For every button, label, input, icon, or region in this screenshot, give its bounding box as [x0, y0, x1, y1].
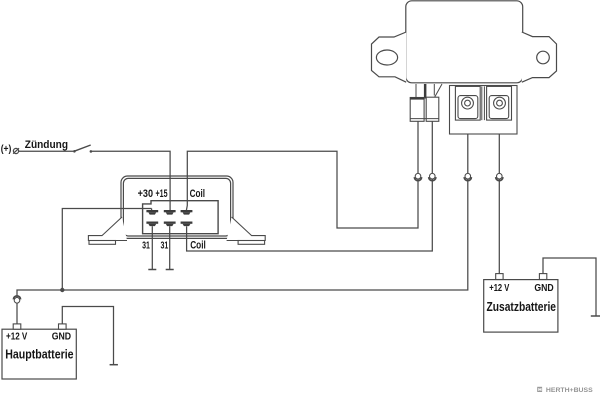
- wire coil-top pin to relay pin A: [186, 121, 418, 228]
- ground symbol 31 right: [166, 269, 174, 271]
- svg-text:+15: +15: [156, 188, 168, 200]
- junction node dot: [60, 288, 64, 292]
- switch fixed contact dot: [90, 150, 93, 153]
- svg-text:+12 V: +12 V: [489, 283, 509, 294]
- wire socket pin 31 (left) to ground: [151, 226, 153, 269]
- svg-text:Coil: Coil: [190, 240, 206, 252]
- svg-text:Coil: Coil: [190, 188, 205, 200]
- wire socket pin 31 (right) to ground: [169, 226, 171, 269]
- socket pin coil-bottom: [181, 222, 193, 227]
- relay terminal D: [487, 86, 512, 120]
- logo HERTH+BUSS icon: [537, 387, 542, 392]
- svg-text:31: 31: [161, 241, 169, 252]
- relay left mounting tab: [372, 32, 407, 82]
- wire relay pin D to auxiliary battery +12V: [498, 109, 500, 274]
- relay coil pin thick blade: [424, 84, 427, 99]
- socket pin 31 left: [146, 222, 158, 227]
- bullet connector pin A: [414, 173, 421, 180]
- relay body: [406, 1, 523, 83]
- svg-text:GND: GND: [52, 331, 72, 343]
- relay sleeves inner line: [410, 118, 439, 120]
- wire coil-bottom pin to relay pin B: [187, 121, 433, 251]
- svg-text:Hauptbatterie: Hauptbatterie: [5, 348, 73, 362]
- svg-text:GND: GND: [534, 283, 553, 294]
- main battery GND terminal: [59, 324, 67, 329]
- socket right mounting bracket: [227, 217, 266, 244]
- battery Hauptbatterie box: [2, 329, 76, 379]
- relay pin sleeve A top bar: [410, 97, 424, 99]
- relay pin sleeve A: [410, 98, 424, 122]
- ground symbol main battery: [110, 364, 118, 366]
- bullet connector pin C: [464, 173, 471, 180]
- relay coil pins above sleeves: [416, 84, 442, 97]
- svg-text:(+): (+): [1, 144, 12, 155]
- relay terminal C: [455, 86, 480, 120]
- svg-text:31: 31: [142, 241, 150, 252]
- ground symbol 31 left: [148, 269, 156, 271]
- aux battery +12V terminal: [496, 274, 503, 280]
- svg-text:+12 V: +12 V: [6, 331, 27, 343]
- socket pin coil-top: [181, 210, 193, 215]
- socket left mounting bracket: [88, 217, 127, 244]
- svg-text:+30: +30: [138, 188, 153, 200]
- bullet connector pin B: [429, 173, 436, 180]
- socket pin +15: [164, 210, 176, 215]
- relay pin sleeve B: [426, 97, 439, 121]
- socket pin 31 right: [164, 222, 176, 227]
- wire main battery GND to ground: [62, 307, 113, 365]
- bullet connector main battery: [13, 296, 20, 303]
- aux battery GND terminal: [539, 274, 546, 280]
- battery Zusatzbatterie box: [484, 280, 558, 333]
- terminal (+) circle with slash: [13, 148, 19, 154]
- bullet connector pin D: [496, 173, 503, 180]
- relay right mounting tab: [522, 32, 557, 82]
- svg-text:Zündung: Zündung: [25, 139, 68, 151]
- wire ignition to +15 pin: [19, 151, 170, 210]
- socket pin cavity with notch: [143, 201, 219, 234]
- relay terminal block: [450, 86, 518, 135]
- ground symbol auxiliary battery: [591, 315, 600, 317]
- switch Zündung lever: [74, 145, 91, 151]
- wire auxiliary battery GND to ground: [543, 258, 596, 316]
- svg-text:HERTH+BUSS: HERTH+BUSS: [546, 387, 593, 394]
- relay socket body (double rounded rect): [121, 176, 233, 238]
- switch pivot contact dot: [73, 150, 76, 153]
- wire main battery +12V / +30 / relay pin C: [17, 109, 468, 324]
- svg-text:Zusatzbatterie: Zusatzbatterie: [487, 300, 557, 314]
- main battery +12V terminal: [13, 324, 21, 329]
- socket pin +30: [146, 210, 158, 215]
- relay block middle rib: [482, 86, 485, 120]
